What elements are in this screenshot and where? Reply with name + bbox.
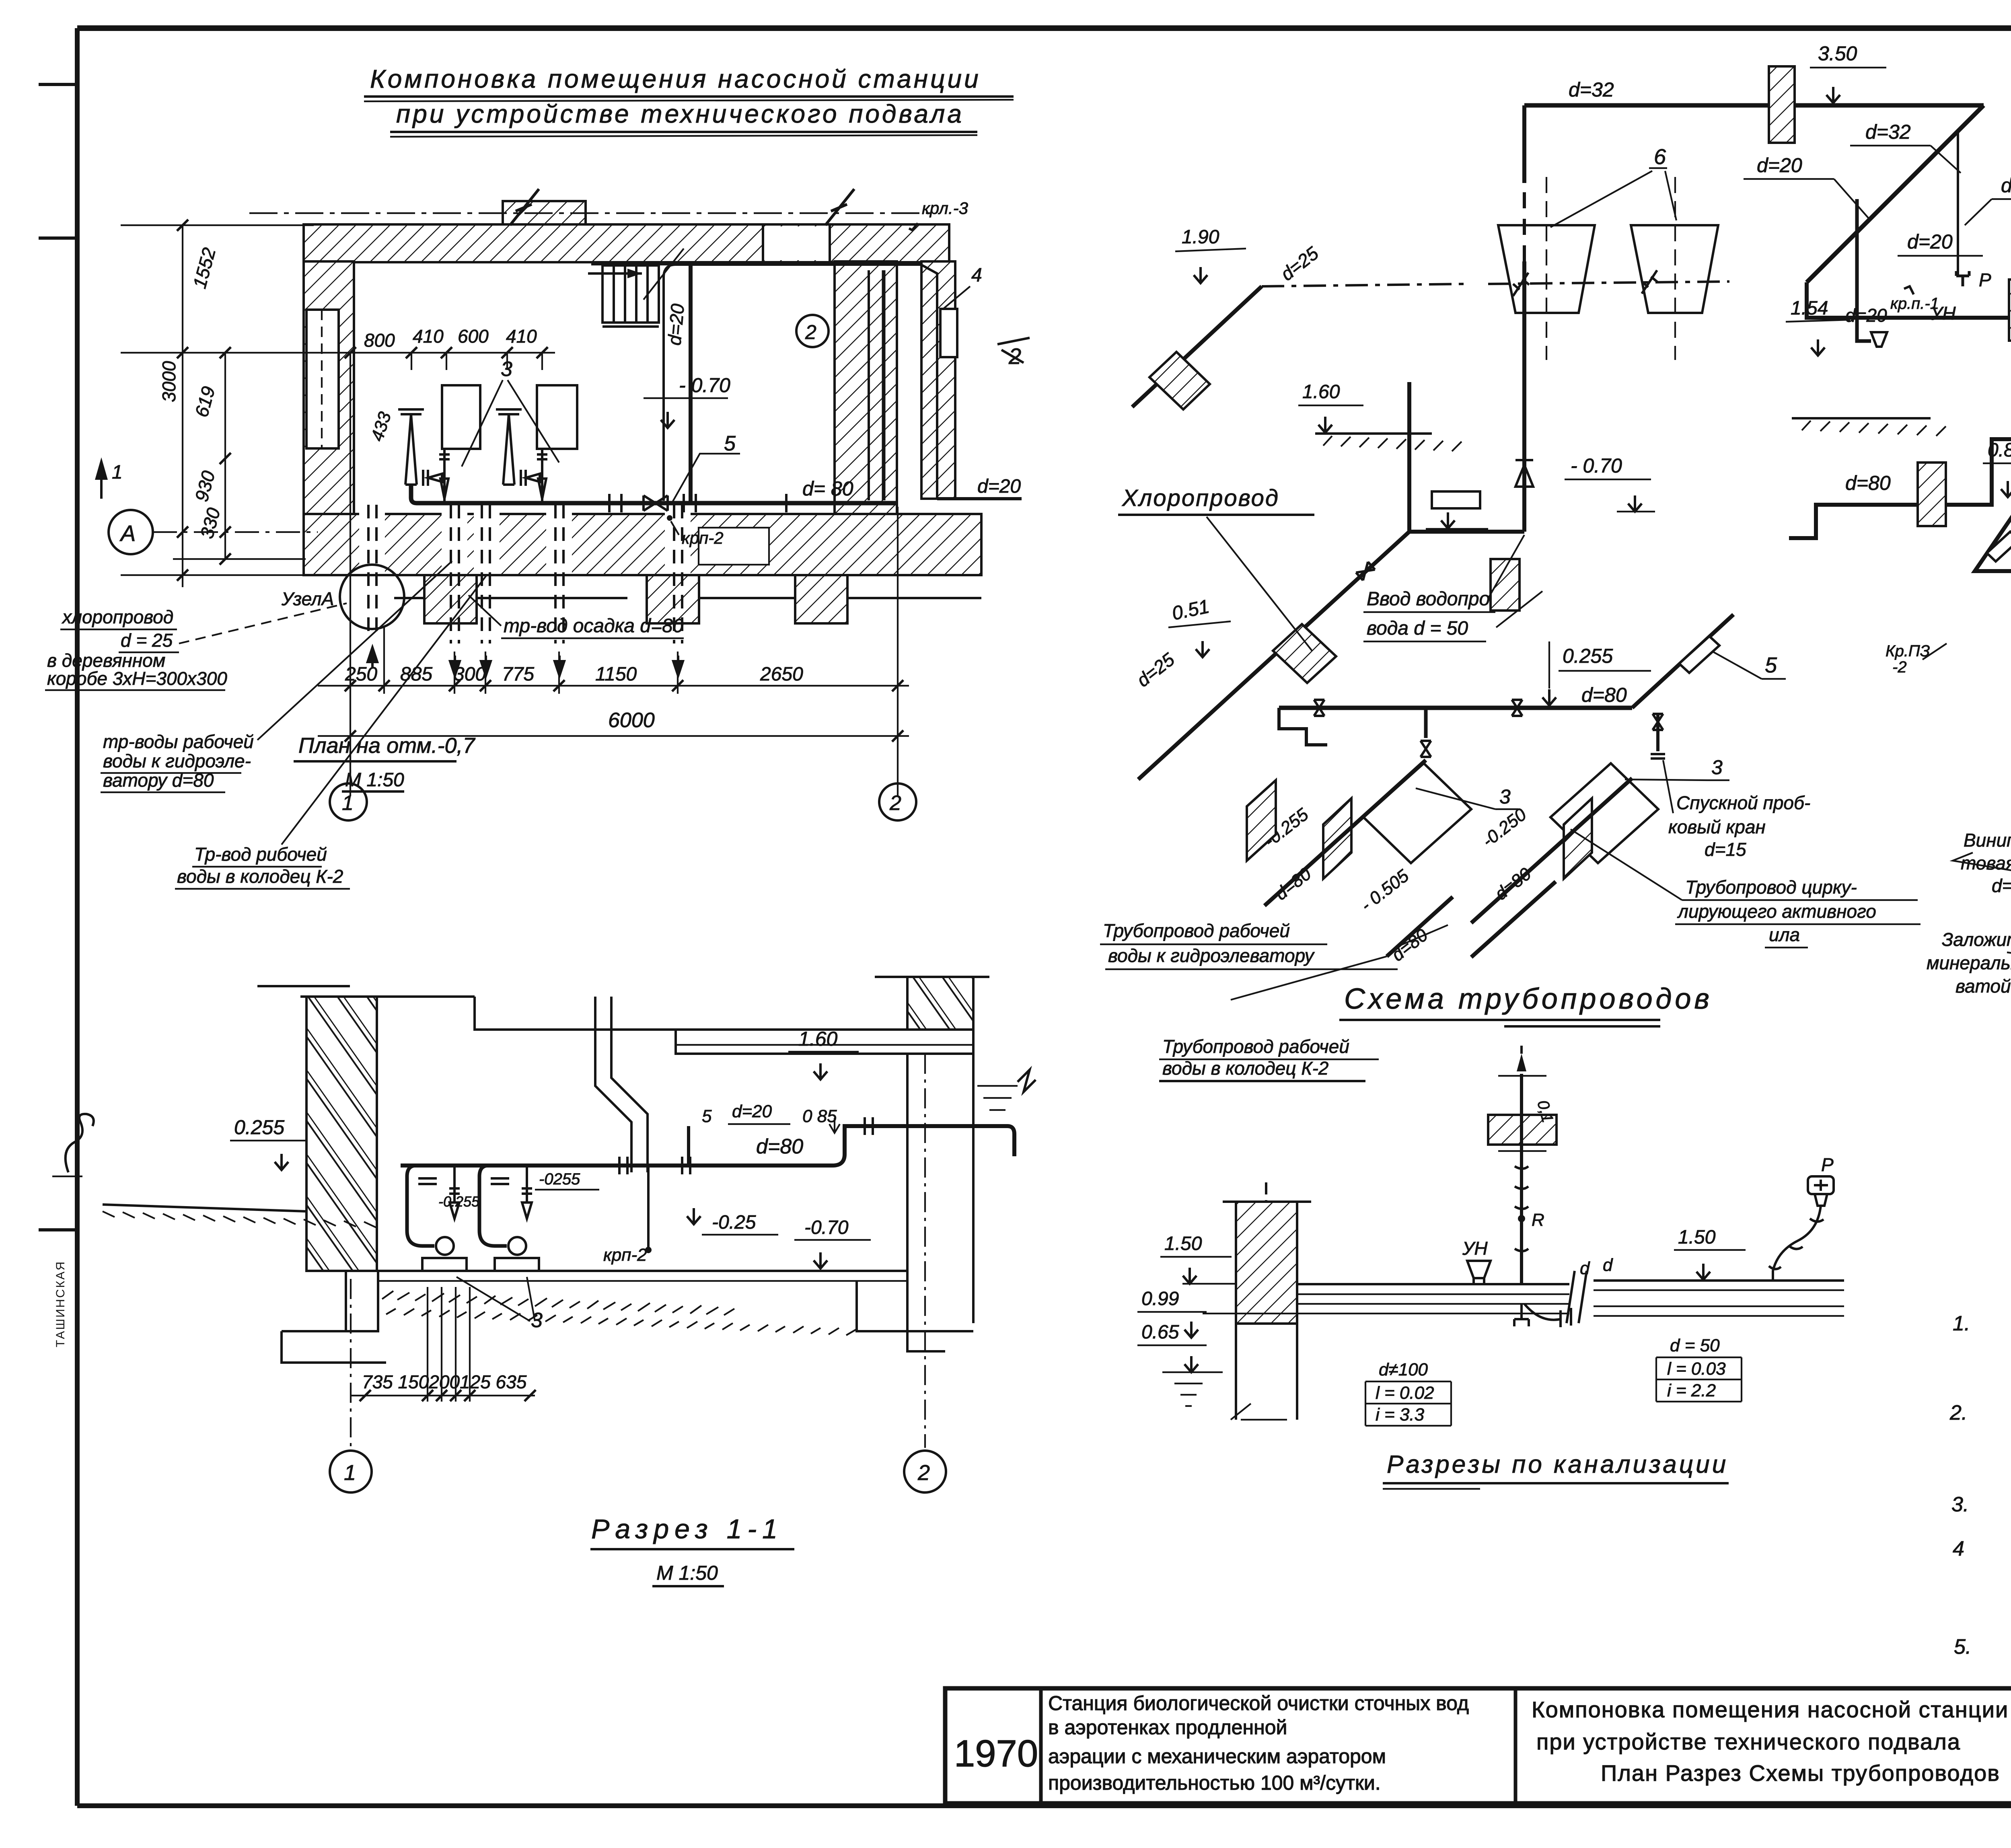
- text viniplast pipe: [1953, 830, 2011, 898]
- svg-text:410: 410: [506, 326, 537, 347]
- pump unit outline 1: [442, 385, 480, 449]
- note 2: [1949, 1401, 2011, 1469]
- level 0.85: [1983, 440, 2011, 497]
- section riser to tank: [687, 1126, 690, 1166]
- svg-text:- 0.70: - 0.70: [1571, 454, 1622, 477]
- wall top band hatched: [304, 224, 949, 262]
- text working water to gidroelevator: [1100, 920, 1448, 969]
- stamp project description: [1048, 1692, 1469, 1794]
- svg-text:d=80: d=80: [756, 1135, 803, 1158]
- svg-text:3: 3: [501, 358, 512, 381]
- foundation pier hatched 3: [795, 575, 847, 623]
- wall crossing below inlet corner: [1491, 559, 1520, 611]
- ground line left slope: [103, 1205, 376, 1227]
- svg-text:600: 600: [458, 326, 489, 347]
- svg-text:УзелА: УзелА: [281, 588, 334, 609]
- label d=20 upper left: [1744, 154, 1869, 219]
- svg-text:d=20: d=20: [732, 1102, 772, 1121]
- check valve on riser: [1515, 460, 1533, 487]
- level 1.50 right: [1674, 1227, 1746, 1280]
- svg-text:Схема трубопроводов: Схема трубопроводов: [1344, 983, 1713, 1015]
- svg-text:1150: 1150: [595, 664, 637, 685]
- note 4: [1953, 1537, 2011, 1630]
- svg-text:-0.255: -0.255: [438, 1193, 480, 1210]
- stairs: [588, 249, 684, 327]
- svg-text:1: 1: [344, 1461, 356, 1485]
- wall left band hatched: [304, 261, 354, 545]
- svg-text:l = 0.03: l = 0.03: [1667, 1359, 1726, 1379]
- svg-text:410: 410: [413, 326, 444, 347]
- svg-text:d=20: d=20: [1757, 154, 1802, 177]
- section level 1.60: [788, 1028, 859, 1079]
- text zalozhit mineral wool: [1927, 929, 2011, 997]
- svg-text:вода d = 50: вода d = 50: [1367, 618, 1468, 639]
- svg-text:воды в колодец К-2: воды в колодец К-2: [177, 866, 343, 887]
- pipe d=20 thin riser in plan: [662, 278, 665, 501]
- elbow to d=20 run: [1807, 282, 2011, 318]
- main heading line 2: [390, 99, 977, 137]
- svg-text:d=32: d=32: [1865, 121, 1911, 143]
- tee down with valve: [1421, 708, 1431, 757]
- svg-text:l = 0.02: l = 0.02: [1376, 1383, 1434, 1403]
- section right upper slab with beam: [676, 977, 989, 1054]
- wall column lines below: [1223, 1182, 1311, 1420]
- dash-dot line between tanks: [1262, 270, 1729, 296]
- svg-text:Компоновка помещения насосно: Компоновка помещения насосной станции: [370, 64, 981, 93]
- section axis bubble 1: [330, 1279, 372, 1492]
- assembly A: diagonal d=80: [1265, 760, 1426, 906]
- svg-text:2: 2: [805, 321, 816, 343]
- level 0.51 on chlorine: [1168, 596, 1231, 657]
- text working water to hydroelevator: [101, 561, 452, 792]
- plan title: [294, 734, 476, 791]
- axis bubble A: [97, 462, 318, 554]
- svg-text:d=20: d=20: [1907, 230, 1953, 253]
- svg-text:i = 2.2: i = 2.2: [1667, 1381, 1716, 1400]
- svg-text:Заложить: Заложить: [1942, 929, 2011, 950]
- svg-text:-0255: -0255: [539, 1170, 580, 1188]
- svg-text:6000: 6000: [608, 709, 655, 732]
- dim 6000: [318, 709, 909, 742]
- wall crossing on d=20 run: [2009, 280, 2011, 341]
- svg-text:ватой: ватой: [1955, 976, 2011, 997]
- svg-text:Тр-вод рибочей: Тр-вод рибочей: [194, 844, 327, 865]
- svg-text:Р: Р: [1821, 1154, 1834, 1175]
- branch right to krp-4: [1975, 443, 2011, 666]
- svg-text:Спускной проб-: Спускной проб-: [1676, 792, 1810, 813]
- chlorine label: [1118, 485, 1314, 651]
- levels 0.99 0.65: [1137, 1288, 1223, 1406]
- ground hatch under floor: [382, 1291, 856, 1335]
- flag on diagonal: [1679, 636, 1719, 673]
- water inlet horizontal pipe: [1409, 530, 1524, 534]
- svg-text:d=20: d=20: [977, 476, 1021, 497]
- svg-text:хлоропровод: хлоропровод: [62, 606, 173, 627]
- text chlorine pipe note: [45, 603, 347, 690]
- axis bubble 1: [330, 748, 367, 820]
- svg-text:М 1:50: М 1:50: [345, 769, 404, 791]
- svg-text:3: 3: [1499, 785, 1511, 808]
- drain valve branch: [1651, 713, 1665, 759]
- valve 1 on main: [1314, 700, 1324, 716]
- left pipe pair lines: [1203, 1284, 1569, 1314]
- note 1: [1953, 1312, 2011, 1377]
- wall right band hatched: [835, 261, 897, 529]
- pipe d=20 top run to wall: [664, 265, 937, 499]
- svg-text:1: 1: [112, 462, 123, 483]
- wall crossing on top run: [1769, 66, 1795, 143]
- assembly A: foundation parallelogram: [1363, 763, 1471, 863]
- svg-text:Ввод водопро: Ввод водопро: [1367, 588, 1490, 610]
- lower continuation diagonal B: [1471, 882, 1556, 957]
- svg-text:i = 3.3: i = 3.3: [1376, 1405, 1425, 1425]
- svg-text:в аэротенках продленной: в аэротенках продленной: [1048, 1716, 1287, 1739]
- leader to gidroelevator text: [1231, 956, 1387, 1000]
- assembly B labels: [1478, 804, 1535, 904]
- pipe d=20 bottom right stub: [937, 497, 1022, 500]
- svg-text:УН: УН: [1462, 1238, 1488, 1259]
- svg-text:Компоновка помещения насос: Компоновка помещения насосной станции: [1532, 1697, 2009, 1722]
- pump suction pipe 1: [398, 409, 450, 503]
- flow arrows under pipes: [368, 648, 683, 676]
- tank trapezoid 2: [1631, 225, 1718, 313]
- svg-text:А: А: [119, 520, 136, 546]
- svg-text:d≠100: d≠100: [1379, 1360, 1428, 1379]
- svg-text:250: 250: [345, 664, 377, 685]
- svg-text:d=15: d=15: [1705, 839, 1746, 860]
- small parallelogram flags on branch diagonal: [1987, 532, 2011, 561]
- underfloor pipe dashed 1 (chlorine): [368, 505, 376, 631]
- right slope table: [1656, 1336, 1742, 1402]
- svg-text:крл.-3: крл.-3: [922, 199, 968, 218]
- pipe d=80 main heavy in plan: [411, 485, 898, 503]
- chlorine pipe diagonal d=25 lower: [1138, 532, 1409, 779]
- riser through ceiling: [1488, 1046, 1557, 1284]
- label d=15: [1965, 174, 2011, 225]
- svg-text:ила: ила: [1769, 924, 1800, 945]
- assembly A: wall rhombus hatched: [1323, 798, 1351, 879]
- level 0.255 left: [230, 1116, 306, 1170]
- break marks: [1567, 1271, 1587, 1323]
- svg-text:d=20: d=20: [1845, 305, 1887, 326]
- left dim chain: [121, 220, 342, 587]
- svg-text:d=80: d=80: [1581, 684, 1627, 706]
- top run d=32: [1524, 103, 1984, 108]
- tap under pipe: [1514, 1304, 1571, 1327]
- svg-text:d=15: d=15: [2001, 174, 2011, 197]
- svg-text:300: 300: [454, 664, 486, 685]
- water inlet riser left: [1407, 382, 1411, 532]
- svg-text:коробе 3хН=300х300: коробе 3хН=300х300: [47, 668, 227, 689]
- pipe fittings on main run: [609, 494, 786, 512]
- stamp sheet title: [1532, 1697, 2009, 1786]
- section inner wall line: [595, 997, 648, 1172]
- label d=32 diagonal: [1850, 121, 1961, 173]
- margin signature: [66, 1114, 94, 1172]
- label krp-2: [667, 515, 724, 547]
- node A circle: [340, 565, 404, 629]
- svg-text:5: 5: [724, 432, 736, 455]
- svg-text:УН: УН: [1930, 303, 1956, 324]
- svg-text:Р: Р: [1979, 269, 1991, 290]
- svg-text:1: 1: [342, 791, 354, 815]
- svg-text:2: 2: [917, 1461, 930, 1485]
- svg-text:d=80: d=80: [1845, 472, 1891, 494]
- label 3 on assembly B: [1625, 756, 1729, 780]
- left slope table: [1365, 1360, 1451, 1426]
- svg-text:Станция биологической очистк: Станция биологической очистки сточных во…: [1048, 1692, 1469, 1714]
- svg-text:Трубопровод цирку-: Трубопровод цирку-: [1685, 877, 1857, 898]
- svg-text:6: 6: [1654, 145, 1666, 169]
- level 1.90: [1175, 226, 1246, 283]
- svg-text:2.: 2.: [1949, 1401, 1967, 1425]
- gauge rectangle: [1432, 491, 1480, 508]
- svg-text:воды к гидроэле-: воды к гидроэле-: [103, 750, 251, 771]
- svg-text:аэрации с механическим аэ: аэрации с механическим аэратором: [1048, 1745, 1386, 1768]
- valve 2 on main: [1512, 700, 1522, 716]
- section cut line 1-1 dash-dot: [249, 212, 937, 214]
- chlorine pipe diagonal upper: [1132, 286, 1262, 407]
- label 5 cluster: [1713, 652, 1786, 679]
- lower continuation diagonal A: [1387, 897, 1453, 956]
- svg-text:1970: 1970: [954, 1732, 1038, 1774]
- section label 3: [456, 1277, 543, 1332]
- svg-text:R: R: [1532, 1210, 1544, 1230]
- text working water to well K-2: [175, 575, 487, 889]
- svg-text:1.60: 1.60: [1302, 381, 1340, 403]
- section pipe main horizontal: [401, 1117, 1014, 1174]
- note 5: [1954, 1635, 2011, 1688]
- tap P: [1956, 269, 1991, 290]
- svg-text:775: 775: [502, 664, 534, 685]
- svg-text:0.255: 0.255: [234, 1116, 284, 1139]
- label kr.PZ-2: [1886, 642, 1947, 676]
- title block (stamp): [945, 1688, 2011, 1803]
- slab top line: [257, 986, 676, 1030]
- label tr-vod osadka d=80: [469, 595, 684, 638]
- svg-text:1.60: 1.60: [798, 1028, 838, 1050]
- svg-text:лирующего активного: лирующего активного: [1677, 901, 1876, 922]
- svg-text:воды в колодец К-2: воды в колодец К-2: [1162, 1058, 1328, 1079]
- scheme title: [1339, 983, 1713, 1026]
- level 1.54: [1786, 298, 1946, 436]
- svg-text:минеральной: минеральной: [1927, 952, 2011, 973]
- svg-text:крп-2: крп-2: [603, 1245, 647, 1265]
- svg-text:Разрез 1-1: Разрез 1-1: [591, 1514, 783, 1544]
- text drain plug valve: [1663, 760, 1810, 860]
- level -0.70 on riser: [1565, 454, 1655, 512]
- wall crossing on d=80 mid: [1918, 463, 1946, 526]
- inlet text: [1363, 535, 1542, 641]
- svg-text:d=32: d=32: [1569, 78, 1614, 101]
- svg-text:d: d: [1580, 1258, 1590, 1278]
- section dim row 735 150 200 125 635: [350, 1287, 536, 1402]
- label krl-3: [909, 199, 968, 230]
- svg-text:Трубопровод рабочей: Трубопровод рабочей: [1162, 1036, 1349, 1057]
- svg-text:-2: -2: [1892, 658, 1907, 676]
- tank trapezoid 1: [1498, 225, 1595, 313]
- riser to UN: [1857, 199, 1871, 341]
- wall far-right band hatched: [921, 261, 955, 499]
- svg-text:План на отм.-0,7: План на отм.-0,7: [298, 734, 476, 758]
- svg-text:при устройстве технического: при устройстве технического подвала: [396, 99, 964, 128]
- inset in bottom band under room 2: [699, 528, 769, 565]
- right pipe pair lines: [1594, 1281, 1844, 1316]
- svg-text:3.50: 3.50: [1818, 42, 1857, 65]
- svg-text:5.: 5.: [1954, 1635, 1971, 1659]
- section levels -0.25 -0.70: [687, 1208, 871, 1268]
- underfloor pipe dashed 5: [674, 505, 682, 643]
- foundation left: [282, 1271, 386, 1363]
- svg-text:воды к гидроэлеватору: воды к гидроэлеватору: [1108, 945, 1315, 966]
- level 3.50: [1810, 42, 1886, 103]
- section right wall below: [907, 1054, 973, 1351]
- d=80 horizontal mid: [1789, 439, 2011, 538]
- svg-text:3.: 3.: [1951, 1493, 1969, 1516]
- level -0.70 plan: [644, 374, 730, 428]
- svg-text:d=20: d=20: [664, 303, 688, 346]
- svg-text:-0.70: -0.70: [804, 1217, 849, 1238]
- foundation right: [857, 1281, 973, 1331]
- label 3 on assembly A: [1416, 785, 1518, 809]
- section floor line: [377, 1271, 907, 1281]
- svg-text:d=25: d=25: [1992, 875, 2011, 896]
- svg-text:ТАШИНСКАЯ: ТАШИНСКАЯ: [54, 1260, 67, 1347]
- branch d=15 vertical: [1957, 132, 1959, 277]
- svg-text:Трубопровод рабочей: Трубопровод рабочей: [1103, 920, 1290, 941]
- diagonal up-right to "5": [1632, 615, 1733, 708]
- svg-text:ковый кран: ковый кран: [1668, 816, 1766, 837]
- water in pit right: [977, 1070, 1036, 1110]
- svg-text:d = 50: d = 50: [1670, 1336, 1720, 1355]
- svg-text:4: 4: [1953, 1537, 1964, 1560]
- wall left niche: [306, 310, 339, 448]
- underfloor pipe dashed 3: [482, 505, 490, 643]
- underfloor pipe dashed 2: [451, 505, 459, 643]
- svg-text:0.255: 0.255: [1563, 645, 1613, 667]
- foundation lines below bottom wall: [304, 575, 981, 598]
- section title: [590, 1514, 794, 1586]
- fold tick marks: [39, 84, 77, 1230]
- wall column hatched: [1236, 1202, 1297, 1324]
- svg-text:- 0.70: - 0.70: [679, 374, 730, 397]
- pump unit outline 2: [537, 385, 577, 449]
- svg-text:2: 2: [1008, 343, 1021, 369]
- UN funnel on pipe: [1462, 1238, 1491, 1284]
- text circulating sludge pipe: [1571, 829, 1921, 948]
- svg-text:крп-2: крп-2: [682, 528, 724, 547]
- section mark 2 right: [997, 338, 1030, 363]
- svg-text:4: 4: [971, 265, 982, 286]
- svg-text:Виниплас-: Виниплас-: [1964, 830, 2011, 851]
- sewer sections title: [1383, 1451, 1729, 1489]
- svg-text:735 150200125 635: 735 150200125 635: [362, 1371, 527, 1392]
- pump suction pipe 2: [496, 409, 547, 503]
- svg-text:5: 5: [702, 1106, 712, 1126]
- UN funnel: [1871, 332, 1887, 347]
- text pipe to well K-2: [1159, 1036, 1379, 1081]
- svg-text:0.99: 0.99: [1141, 1288, 1179, 1309]
- label 4 with leader: [940, 265, 982, 357]
- ground mark at riser left (1.60): [1298, 381, 1462, 451]
- assembly B: wall rhombus hatched: [1564, 798, 1592, 879]
- svg-text:1.90: 1.90: [1182, 226, 1219, 248]
- svg-text:3000: 3000: [158, 361, 179, 402]
- svg-text:2: 2: [889, 791, 901, 815]
- left wall crossing band: [1247, 780, 1276, 861]
- svg-text:0.65: 0.65: [1141, 1322, 1179, 1343]
- label kr.p-1: [1890, 286, 1939, 312]
- section axis bubble 2: [904, 1054, 946, 1492]
- sludge main horizontal d=80: [1279, 706, 1632, 710]
- level 0.255: [1542, 641, 1651, 705]
- main heading line 1: [364, 64, 1014, 101]
- section level -0.255 small: [438, 1170, 599, 1210]
- section mark zigzag right: [825, 189, 854, 225]
- level 1.50 left: [1160, 1233, 1236, 1284]
- foundation pier hatched 1: [424, 575, 477, 623]
- label 6 with leaders: [1550, 145, 1676, 227]
- axis bubble 2: [879, 783, 916, 820]
- sprinkler P right: [1769, 1154, 1834, 1281]
- svg-text:2650: 2650: [760, 664, 803, 685]
- valve on chlorine pipe: [1356, 562, 1375, 580]
- label 3 with leaders: [462, 358, 559, 467]
- svg-text:Разрезы по канализации: Разрезы по канализации: [1387, 1451, 1728, 1478]
- wall top step hatched: [503, 201, 586, 224]
- assembly B: diagonal d=80: [1471, 778, 1632, 923]
- main diagonal d=32: [1807, 105, 1984, 282]
- svg-text:Кр.ПЗ: Кр.ПЗ: [1886, 642, 1930, 660]
- main riser d=32: [1522, 105, 1526, 532]
- section pumps: [407, 1166, 539, 1271]
- svg-text:-0.25: -0.25: [712, 1212, 756, 1233]
- section label 5 d=20 0.85: [702, 1102, 840, 1133]
- dim chain top (800 410 600 410): [342, 347, 555, 796]
- room number 2 circle: [796, 315, 829, 347]
- section krp-2 riser: [603, 1166, 652, 1265]
- wall crossing on upper chlorine: [1149, 352, 1210, 409]
- svg-text:1.50: 1.50: [1678, 1227, 1716, 1248]
- foundation pier hatched 2: [647, 575, 699, 623]
- label 5 with leader: [672, 432, 740, 502]
- svg-text:1.: 1.: [1953, 1312, 1970, 1335]
- label d=20 mid: [1898, 230, 1983, 256]
- section mark zigzag left: [510, 189, 539, 225]
- wall bottom band hatched: [304, 512, 981, 577]
- underfloor pipe dashed 4: [555, 505, 563, 643]
- svg-text:План Разрез Схемы тру: План Разрез Схемы трубопроводов: [1601, 1760, 2000, 1786]
- svg-text:3: 3: [1711, 756, 1723, 779]
- assembly A labels: [1260, 804, 1315, 904]
- svg-text:800: 800: [364, 330, 395, 351]
- room 2 heavy outline: [591, 263, 921, 503]
- svg-text:0 85: 0 85: [802, 1106, 837, 1126]
- left end jog: [1279, 708, 1327, 745]
- note 3: [1951, 1493, 2011, 1516]
- svg-text:1.50: 1.50: [1164, 1233, 1202, 1254]
- tank centerlines: [1546, 177, 1675, 360]
- svg-text:при устройстве техническ: при устройстве технического подвала: [1536, 1729, 1961, 1754]
- label -0.505: [1357, 866, 1432, 965]
- svg-text:d = 25: d = 25: [121, 630, 173, 651]
- svg-text:Хлоропровод: Хлоропровод: [1121, 485, 1279, 511]
- svg-text:5: 5: [1765, 653, 1777, 677]
- svg-text:d= 80: d= 80: [802, 477, 853, 500]
- section left wall hatched: [306, 997, 377, 1271]
- svg-text:тр-воды рабочей: тр-воды рабочей: [103, 731, 254, 752]
- svg-text:тр-вод осадка d=80: тр-вод осадка d=80: [504, 615, 684, 637]
